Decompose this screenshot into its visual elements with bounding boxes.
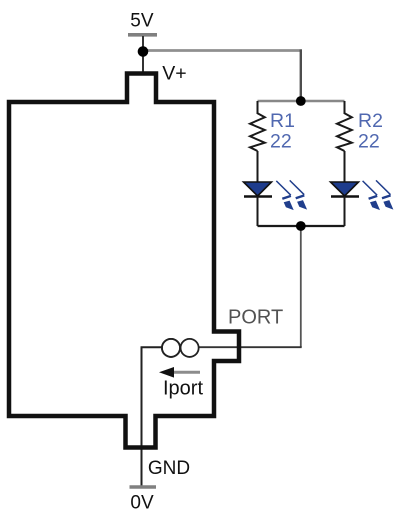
LED D2 light arrow 2 head (383, 200, 393, 210)
top rail between R1 and R2 branches (258, 100, 345, 103)
LED D1 light arrow 2 head (297, 200, 307, 210)
GND rail bar (0V) (130, 485, 157, 489)
wire: LED D2 to bottom rail (344, 197, 346, 227)
Iport arrow head (159, 367, 174, 378)
junction dot at LED top rail (296, 96, 306, 106)
LED D2 light arrow 2 (376, 180, 391, 198)
current source symbol circle 1 (162, 339, 180, 357)
current source symbol circle 2 (181, 339, 199, 357)
LED D2 light arrow 1 (363, 181, 378, 199)
svg-text:Iport: Iport (163, 378, 203, 400)
wire: internal vertical down to GND pin and 0V bar (141, 347, 143, 487)
LED D1 triangle (244, 182, 272, 196)
wire: bottom rail node down to PORT wire (300, 227, 302, 347)
LED D2 cathode bar (331, 195, 359, 198)
LED D2 triangle (331, 182, 359, 196)
svg-text:0V: 0V (130, 493, 154, 514)
wire: R2 bottom to LED D2 (344, 151, 346, 183)
wire: 5V node to top-right (gray) (144, 49, 302, 52)
wire: rail to R2 top (344, 101, 346, 114)
svg-text:22: 22 (358, 131, 380, 153)
wire: rail to R1 top (257, 101, 259, 114)
svg-text:V+: V+ (162, 63, 186, 85)
wire: 5V bar down to node (142, 36, 144, 50)
wire: R1 bottom to LED D1 (257, 151, 259, 183)
svg-text:GND: GND (148, 458, 190, 479)
wire: down from gray wire to LED top rail node (300, 50, 302, 101)
LED D2 light arrow 1 head (370, 201, 380, 211)
LED D1 light arrow 1 (276, 181, 291, 199)
current source circle 1 outline (162, 339, 180, 357)
svg-text:5V: 5V (130, 11, 154, 32)
LED D1 light arrow 2 (290, 180, 305, 198)
LED D1 light arrow 1 head (284, 201, 294, 211)
junction dot at LED bottom rail (296, 221, 306, 231)
LED D1 cathode bar (244, 195, 272, 198)
Iport arrow shaft (170, 371, 200, 374)
bottom rail joining LED cathodes (258, 225, 345, 227)
wire: node down to V+ pin (142, 50, 144, 75)
wire: current source to left corner (141, 346, 162, 348)
svg-text:22: 22 (270, 131, 292, 153)
junction dot at 5V node (138, 46, 149, 57)
svg-text:R2: R2 (358, 110, 383, 132)
resistor R2 (337, 113, 352, 151)
chip outline with V+, PORT and GND pin tabs (9, 74, 239, 448)
svg-text:PORT: PORT (228, 307, 283, 329)
svg-text:R1: R1 (270, 110, 295, 132)
wire: PORT horizontal wire from node to current source (199, 346, 302, 348)
resistor R1 (250, 113, 265, 151)
5V power rail bar (128, 33, 157, 37)
wire: LED D1 to bottom rail (257, 197, 259, 227)
